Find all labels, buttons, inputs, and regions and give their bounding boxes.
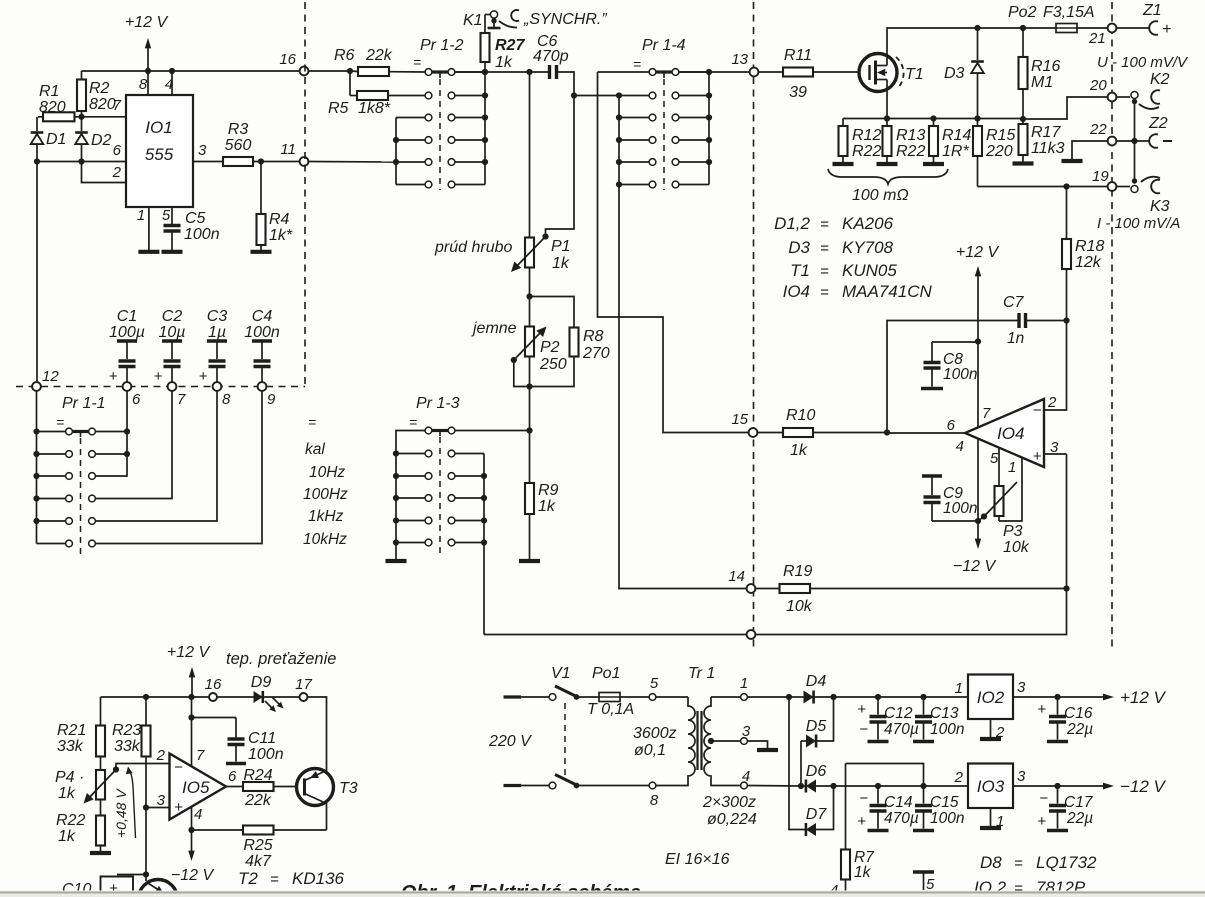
- svg-text:13: 13: [731, 51, 748, 68]
- wire tap4 row: [748, 785, 801, 788]
- label Pr 1-4: [633, 37, 686, 72]
- Pr1-3 right contacts: [448, 427, 455, 546]
- wire blade to node 13: [679, 71, 749, 73]
- svg-text:−12 V: −12 V: [1120, 777, 1167, 796]
- wire pin4 IO4: [975, 439, 981, 525]
- wire C2 to row4: [96, 391, 173, 499]
- capacitor C10: [62, 875, 146, 897]
- svg-text:R3: R3: [228, 121, 249, 138]
- svg-text:100Hz: 100Hz: [303, 486, 348, 503]
- capacitor C1: [109, 308, 145, 385]
- svg-text:D3: D3: [944, 65, 965, 82]
- resistor R12: [839, 119, 882, 163]
- capacitor C16: [1037, 697, 1093, 742]
- svg-text:R1: R1: [39, 83, 59, 100]
- label node 4 bottom: [830, 882, 838, 897]
- potentiometer P2: [511, 297, 567, 387]
- svg-text:16: 16: [205, 676, 222, 693]
- transistor T3: [297, 769, 358, 831]
- node 6: [123, 382, 141, 408]
- dashed separator right vertical: [1111, 2, 1113, 650]
- svg-text:R10: R10: [786, 407, 815, 424]
- svg-text:R21: R21: [57, 722, 86, 739]
- svg-text:IO2: IO2: [977, 688, 1005, 707]
- svg-text:3: 3: [742, 723, 751, 740]
- wire R23 down to T2: [143, 808, 149, 882]
- svg-text:=: =: [1014, 855, 1023, 872]
- svg-text:P4 ·: P4 ·: [55, 769, 84, 786]
- svg-text:+: +: [857, 813, 866, 830]
- wire down to P1: [529, 72, 531, 238]
- ground R22: [90, 851, 111, 855]
- node 16b: [205, 676, 222, 701]
- svg-text:kal: kal: [305, 441, 325, 458]
- svg-text:4: 4: [742, 768, 750, 785]
- svg-text:D2: D2: [91, 132, 112, 149]
- op-amp IO1 box (555 timer): [126, 95, 193, 207]
- svg-text:100n: 100n: [943, 500, 977, 517]
- svg-text:T1: T1: [790, 261, 810, 280]
- svg-text:555: 555: [145, 145, 174, 164]
- transformer Tr1 label: [688, 665, 715, 682]
- svg-text:=: =: [820, 284, 829, 301]
- resistor R25: [192, 826, 327, 871]
- capacitor C11: [188, 714, 283, 763]
- svg-text:IO3: IO3: [977, 777, 1005, 796]
- ground center tap: [757, 748, 778, 752]
- svg-text:R9: R9: [538, 482, 559, 499]
- capacitor C14: [857, 786, 919, 831]
- ground R14: [923, 162, 944, 166]
- node 16: [279, 51, 308, 75]
- Pr1-2 right bus: [482, 69, 488, 185]
- wire center tap ground: [748, 741, 768, 748]
- svg-text:R17: R17: [1031, 124, 1061, 141]
- svg-text:100n: 100n: [244, 324, 280, 341]
- svg-text:R8: R8: [583, 328, 604, 345]
- IO3 pin1 ground: [980, 808, 1004, 830]
- svg-text:jemne: jemne: [471, 320, 517, 337]
- wire node19 row: [978, 183, 1108, 189]
- svg-text:R2: R2: [89, 80, 110, 97]
- svg-text:=: =: [413, 54, 421, 70]
- wire T1 source: [886, 80, 888, 119]
- svg-text:+: +: [1033, 448, 1042, 465]
- resistor R3: [193, 121, 300, 166]
- svg-text:Tr 1: Tr 1: [688, 665, 715, 682]
- pin labels IO5: [156, 747, 237, 823]
- label -12V out: [1120, 777, 1167, 796]
- Pr1-3 mech link dashed: [439, 437, 441, 556]
- svg-text:M1: M1: [1031, 74, 1053, 91]
- svg-text:P1: P1: [551, 238, 571, 255]
- capacitor C12: [857, 697, 919, 742]
- svg-text:C3: C3: [207, 308, 228, 325]
- capacitor C8: [921, 342, 978, 389]
- Pr1-2 right contacts: [448, 69, 455, 188]
- node unnumbered: [747, 630, 756, 639]
- svg-text:11k3: 11k3: [1031, 140, 1065, 157]
- svg-text:D1,2: D1,2: [774, 214, 810, 233]
- svg-text:R12: R12: [852, 127, 881, 144]
- svg-text:V1: V1: [551, 665, 571, 682]
- op-amp IO5: [170, 754, 227, 820]
- svg-text:16: 16: [279, 51, 296, 68]
- svg-text:+: +: [174, 799, 183, 816]
- svg-text:prúd hrubo: prúd hrubo: [434, 239, 512, 256]
- potentiometer P1: [511, 233, 571, 272]
- resistor R6: [309, 47, 425, 76]
- transformer core: [698, 711, 702, 770]
- svg-text:K2: K2: [1150, 71, 1170, 88]
- table D1,2 = KA206: [774, 214, 894, 233]
- svg-text:3600z: 3600z: [633, 725, 677, 742]
- svg-text:12: 12: [42, 368, 59, 385]
- wire pin3 row IO5: [143, 804, 170, 810]
- node 19: [1092, 168, 1116, 191]
- wire pin5 IO4: [998, 448, 1000, 487]
- resistor R11: [759, 47, 870, 101]
- svg-text:IO4: IO4: [997, 424, 1024, 443]
- svg-text:17: 17: [295, 676, 312, 693]
- svg-text:3: 3: [1017, 679, 1026, 696]
- svg-text:+12 V: +12 V: [956, 244, 1000, 261]
- svg-text:−: −: [1033, 402, 1042, 419]
- wire tap1 row: [748, 694, 837, 700]
- wire pin1 IO4: [999, 458, 1022, 521]
- resistor R24: [226, 767, 305, 809]
- node 14: [728, 568, 755, 593]
- svg-text:R5: R5: [328, 100, 349, 117]
- svg-text:R4: R4: [269, 211, 290, 228]
- Pr1-3 right stubs: [455, 454, 484, 543]
- label +12V out: [1120, 688, 1167, 707]
- svg-text:„SYNCHR.”: „SYNCHR.”: [523, 11, 607, 28]
- Pr1-4 right bus: [706, 69, 712, 185]
- svg-text:10µ: 10µ: [158, 324, 185, 341]
- Pr1-1 blade: [73, 432, 89, 438]
- transformer secondary: [702, 675, 757, 828]
- svg-text:R23: R23: [112, 722, 141, 739]
- wire pin4: [171, 71, 173, 95]
- pin labels IO1: [112, 76, 207, 224]
- svg-text:22µ: 22µ: [1066, 810, 1093, 827]
- svg-text:EI 16×16: EI 16×16: [665, 851, 730, 868]
- svg-text:1: 1: [1008, 459, 1016, 476]
- wire T1 drain to rail: [887, 28, 1108, 66]
- wire -12 out: [1013, 783, 1114, 790]
- switch V1 link: [564, 703, 566, 779]
- switch V1 pole1: [504, 665, 600, 700]
- node 21: [1088, 24, 1116, 47]
- svg-text:Z2: Z2: [1148, 115, 1168, 132]
- svg-text:470p: 470p: [533, 48, 569, 65]
- resistor R2: [77, 71, 116, 117]
- diode D6: [801, 763, 878, 793]
- fuse Po1: [587, 665, 649, 718]
- Pr1-2 blade: [432, 72, 448, 78]
- svg-text:IO4: IO4: [783, 282, 810, 301]
- svg-text:22µ: 22µ: [1066, 721, 1093, 738]
- svg-text:IO5: IO5: [182, 778, 210, 797]
- svg-text:−12 V: −12 V: [171, 867, 215, 884]
- Pr1-4 left bus: [616, 92, 622, 187]
- svg-text:R22: R22: [56, 812, 85, 829]
- svg-text:5: 5: [990, 450, 999, 467]
- wire D4 left to D7: [789, 697, 806, 830]
- wire P4 wiper to pin2: [116, 764, 170, 770]
- svg-text:+: +: [199, 368, 208, 385]
- svg-text:−: −: [859, 721, 868, 738]
- Pr1-3 blade: [432, 431, 448, 437]
- table IO2 = 7812P: [974, 878, 1086, 897]
- svg-text:+: +: [154, 368, 163, 385]
- svg-text:+12 V: +12 V: [1120, 688, 1167, 707]
- ground R12: [833, 162, 854, 166]
- resistor R22: [56, 812, 105, 851]
- Pr1-2 left bus: [393, 118, 399, 185]
- svg-text:R22: R22: [896, 143, 925, 160]
- svg-text:R11: R11: [784, 47, 812, 64]
- svg-text:33k: 33k: [57, 738, 84, 755]
- Pr1-2 left bus stubs: [396, 118, 425, 185]
- svg-text:100n: 100n: [930, 721, 964, 738]
- diode D9 LED: [217, 674, 300, 712]
- svg-text:D7: D7: [806, 806, 828, 823]
- capacitor C3: [199, 308, 228, 385]
- resistor R19: [756, 563, 1067, 615]
- svg-text:1µ: 1µ: [208, 324, 226, 341]
- ground Pr1-3: [386, 559, 407, 563]
- svg-text:1k: 1k: [538, 498, 556, 515]
- Pr1-1 left stubs: [37, 432, 66, 544]
- svg-text:C5: C5: [185, 210, 206, 227]
- Pr1-3 left bus: [393, 431, 428, 560]
- labels kal/frequencies: [303, 414, 348, 548]
- svg-text:KD136: KD136: [292, 869, 345, 888]
- svg-text:1k*: 1k*: [269, 227, 293, 244]
- svg-text:C16: C16: [1064, 705, 1093, 722]
- Pr1-1 right contacts: [89, 428, 96, 547]
- Pr1-2 left contacts: [425, 69, 432, 188]
- Pr1-4 right stubs: [679, 72, 709, 185]
- ground R17: [1013, 161, 1034, 165]
- svg-text:39: 39: [789, 84, 807, 101]
- wire R16 to node 20: [1023, 97, 1108, 119]
- svg-text:2: 2: [156, 747, 166, 764]
- label jemne: [471, 320, 517, 337]
- svg-text:100µ: 100µ: [109, 324, 145, 341]
- svg-text:KUN05: KUN05: [842, 261, 897, 280]
- svg-text:Z1: Z1: [1142, 2, 1162, 19]
- svg-text:C13: C13: [930, 705, 959, 722]
- svg-text:4: 4: [194, 806, 202, 823]
- svg-text:2: 2: [954, 769, 964, 786]
- connector K1: [463, 10, 519, 29]
- svg-text:−: −: [1039, 790, 1048, 807]
- svg-text:8: 8: [650, 792, 659, 809]
- wire pin7 IO4: [975, 338, 981, 427]
- diode D3: [944, 25, 984, 119]
- wire pin6 output: [884, 429, 965, 435]
- wire sense row: [843, 115, 1023, 121]
- -12V arrow (IO4): [953, 521, 997, 575]
- svg-text:C11: C11: [248, 730, 276, 747]
- wire pin1 to ground: [148, 207, 150, 250]
- svg-text:220 V: 220 V: [488, 733, 532, 750]
- svg-text:100n: 100n: [943, 366, 977, 383]
- svg-text:C7: C7: [1003, 294, 1025, 311]
- wire 17 to T3 emitter: [308, 697, 327, 772]
- svg-text:8: 8: [139, 76, 148, 93]
- resistor R23: [112, 697, 151, 808]
- svg-text:14: 14: [728, 568, 745, 585]
- node 11: [280, 141, 308, 166]
- wire P1 wiper: [546, 96, 575, 237]
- capacitor C5: [164, 207, 220, 250]
- svg-text:100n: 100n: [184, 226, 220, 243]
- label +12V (IO5): [167, 644, 211, 661]
- svg-text:+0,48 V: +0,48 V: [113, 788, 129, 838]
- svg-text:R24: R24: [243, 767, 272, 784]
- svg-text:2: 2: [112, 164, 122, 181]
- Pr1-3 left stubs: [396, 454, 425, 543]
- svg-text:KY708: KY708: [842, 238, 894, 257]
- svg-text:7: 7: [196, 747, 205, 764]
- label T2 = KD136: [238, 869, 345, 888]
- svg-text:+: +: [857, 701, 866, 718]
- transformer primary: [633, 675, 695, 809]
- svg-text:C12: C12: [884, 705, 913, 722]
- dashed separator middle vertical: [753, 2, 755, 650]
- wire P2 to Pr1-3 row: [526, 387, 532, 434]
- svg-text:10k: 10k: [786, 598, 813, 615]
- svg-text:LQ1732: LQ1732: [1036, 853, 1097, 872]
- svg-text:D4: D4: [806, 673, 827, 690]
- label 220 V: [488, 733, 532, 750]
- diode D7: [806, 786, 834, 836]
- node 13: [731, 51, 758, 76]
- svg-text:C4: C4: [252, 308, 273, 325]
- node 22: [1089, 121, 1116, 145]
- svg-text:1k: 1k: [854, 864, 872, 881]
- svg-text:R14: R14: [942, 127, 971, 144]
- label SYNCHR: [523, 11, 607, 28]
- diode D5: [801, 697, 834, 748]
- svg-text:1k: 1k: [58, 785, 76, 802]
- wire Pr1-4 blade to node15 jog: [598, 72, 749, 433]
- svg-text:+12 V: +12 V: [125, 14, 169, 31]
- svg-text:6: 6: [113, 142, 122, 159]
- svg-text:6: 6: [132, 391, 141, 408]
- diode D2: [75, 117, 111, 162]
- svg-text:=: =: [409, 414, 417, 430]
- label I-100mV/A: [1097, 215, 1180, 232]
- svg-text:R13: R13: [896, 127, 925, 144]
- svg-text:R15: R15: [986, 127, 1015, 144]
- capacitor C6: [533, 33, 569, 79]
- svg-text:C17: C17: [1064, 794, 1094, 811]
- svg-text:C2: C2: [162, 308, 183, 325]
- table IO4 = MAA741CN: [783, 282, 933, 301]
- svg-text:1k: 1k: [495, 54, 513, 71]
- label Pr 1-2: [413, 37, 464, 70]
- svg-text:1R*: 1R*: [942, 143, 969, 160]
- svg-text:470µ: 470µ: [884, 810, 919, 827]
- capacitor C2: [154, 308, 186, 385]
- wire K2-Z2-K3 link: [1131, 102, 1137, 184]
- svg-text:21: 21: [1088, 30, 1106, 47]
- node 12: [32, 368, 59, 391]
- svg-text:470µ: 470µ: [884, 721, 919, 738]
- wire P2 wiper: [514, 360, 530, 387]
- svg-text:2: 2: [1047, 394, 1057, 411]
- svg-text:1k: 1k: [58, 828, 76, 845]
- svg-text:3: 3: [198, 142, 207, 159]
- label +0,48V rotated: [113, 767, 136, 839]
- svg-text:=: =: [56, 414, 64, 430]
- svg-text:7: 7: [982, 405, 991, 422]
- wire +raw rail: [834, 694, 969, 700]
- svg-text:C1: C1: [117, 308, 137, 325]
- wire +12V rail to node 16: [82, 70, 300, 72]
- svg-text:IO1: IO1: [145, 118, 172, 137]
- svg-text:12k: 12k: [1075, 254, 1102, 271]
- svg-text:D5: D5: [806, 718, 827, 735]
- svg-text:R25: R25: [243, 837, 272, 854]
- terminal K3: [1117, 177, 1170, 215]
- wire C3 to row5: [96, 391, 218, 521]
- resistor R7 jog: [846, 764, 924, 787]
- dashed separator left horizontal: [16, 386, 305, 388]
- svg-text:R27: R27: [495, 37, 525, 54]
- svg-text:4: 4: [956, 438, 964, 455]
- regulator IO2: [955, 675, 1026, 720]
- svg-text:+: +: [1162, 21, 1171, 38]
- Pr1-1 left bus: [33, 391, 39, 544]
- fuse Po2 F3,15A: [1008, 4, 1095, 33]
- svg-text:D6: D6: [806, 763, 827, 780]
- svg-text:D8: D8: [980, 853, 1002, 872]
- svg-text:=: =: [270, 871, 279, 888]
- resistor R21: [57, 697, 105, 770]
- junction pin4 rail: [169, 68, 175, 74]
- Pr1-4 blade feed: [598, 71, 650, 73]
- wire pin4 IO5: [188, 807, 194, 853]
- capacitor C13: [913, 697, 964, 742]
- svg-text:1n: 1n: [1007, 330, 1024, 347]
- Pr1-3 blade out: [455, 430, 530, 432]
- resistor R10: [758, 407, 888, 459]
- svg-text:T3: T3: [339, 780, 358, 797]
- svg-text:+12 V: +12 V: [167, 644, 211, 661]
- capacitor bottom cut: [913, 872, 935, 893]
- svg-text:10kHz: 10kHz: [303, 531, 347, 548]
- wire IO5 top rail: [101, 694, 210, 700]
- svg-text:1kHz: 1kHz: [308, 508, 344, 525]
- svg-text:Pr 1-1: Pr 1-1: [62, 395, 106, 412]
- wire pin6 row: [34, 158, 126, 164]
- +12V arrow (IO5): [189, 667, 195, 697]
- wire node22 to ground: [1062, 141, 1108, 161]
- Pr1-3 right bus: [481, 454, 487, 635]
- wire node11 to Pr1-2 bus: [309, 161, 397, 164]
- resistor R8: [526, 297, 609, 390]
- Pr1-2 mech link dashed: [439, 79, 441, 190]
- svg-text:3: 3: [1017, 768, 1026, 785]
- wire Pr1-4 bus down to node 14: [619, 185, 747, 589]
- svg-text:22: 22: [1089, 121, 1107, 138]
